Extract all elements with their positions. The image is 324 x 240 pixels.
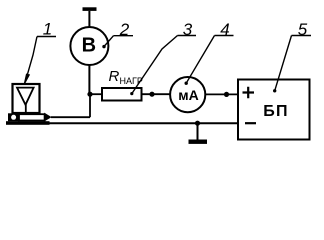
callout 4 (milliammeter) <box>185 20 234 85</box>
device 1: output sleeve <box>19 114 45 120</box>
svg-text:1: 1 <box>43 20 52 39</box>
ground symbol chassis bar <box>189 140 208 144</box>
svg-text:В: В <box>82 35 96 57</box>
device 1: connector block <box>8 113 19 121</box>
svg-text:БП: БП <box>263 103 289 120</box>
power supply plus terminal mark <box>243 87 255 99</box>
svg-text:R: R <box>109 68 120 85</box>
callout 2 (voltmeter) <box>102 20 133 49</box>
wire: riser from elbow up to node A <box>89 94 91 117</box>
device 1: funnel triangle <box>17 88 34 105</box>
wire: device output to riser elbow <box>51 116 90 118</box>
power supply БП box <box>238 80 310 140</box>
device 1: stem from funnel apex <box>25 104 27 115</box>
callout 1 (emitter) <box>24 20 56 85</box>
wire: node A to resistor <box>90 93 102 95</box>
device 1: base plate <box>6 121 50 125</box>
milliammeter PA1 circle <box>170 77 205 112</box>
wire: milliammeter to power supply <box>205 93 238 95</box>
voltmeter PV1 circle <box>70 27 108 65</box>
node C junction dot <box>149 92 154 97</box>
node A junction dot <box>87 92 92 97</box>
wire: resistor to milliammeter <box>142 93 171 95</box>
resistor R нагр box <box>102 88 142 101</box>
power supply minus terminal mark <box>245 122 256 124</box>
node D junction dot <box>224 92 229 97</box>
terminal: top chassis bar <box>83 7 97 11</box>
svg-text:мА: мА <box>178 87 198 103</box>
device 1: output arrow <box>44 113 51 122</box>
node E ground junction dot <box>195 121 200 126</box>
wire: voltmeter to node A <box>88 65 90 94</box>
callout 3 (load resistor) <box>130 20 196 95</box>
device 1: emitter outer box <box>13 84 40 113</box>
device 1: connector eyelet <box>11 115 16 120</box>
ground symbol stem <box>197 123 199 139</box>
callout 5 (power supply) <box>273 20 311 93</box>
svg-text:НАГР: НАГР <box>120 76 143 86</box>
wire: bottom bus from base plate to power supply <box>49 122 239 124</box>
wire: chassis bar to voltmeter <box>88 11 90 27</box>
